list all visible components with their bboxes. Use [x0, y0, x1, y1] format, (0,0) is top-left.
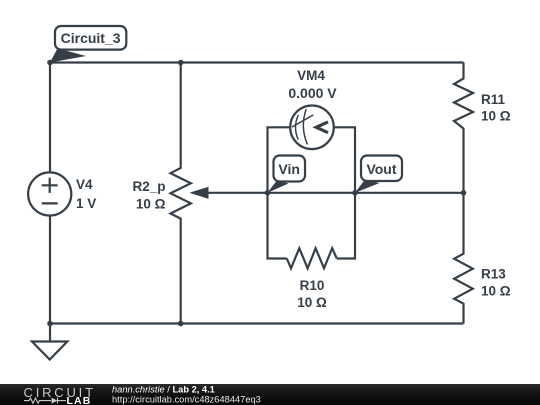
svg-text:10 Ω: 10 Ω [481, 284, 511, 299]
flag Circuit_3 [50, 26, 126, 63]
svg-text:10 Ω: 10 Ω [481, 109, 511, 124]
svg-text:Circuit_3: Circuit_3 [61, 30, 121, 46]
wire R10 loop right [337, 193, 355, 259]
resistor R10 [287, 248, 337, 268]
node (50,323.5) [47, 321, 53, 327]
wire left rail lower [49, 216, 51, 324]
node Vin [265, 190, 271, 196]
resistor R13 [454, 193, 473, 324]
wire middle (wiper to right rail) [194, 192, 464, 194]
voltmeter VM4 [290, 106, 334, 150]
node Vout [352, 190, 358, 196]
svg-text:hann.christie / Lab 2, 4.1: hann.christie / Lab 2, 4.1 [112, 385, 215, 395]
potentiometer R2_p [171, 63, 209, 324]
svg-text:R10: R10 [300, 278, 325, 293]
wire top rail [50, 61, 464, 63]
svg-text:http://circuitlab.com/c48z6484: http://circuitlab.com/c48z648447eq3 [112, 394, 261, 404]
svg-text:Vout: Vout [366, 161, 396, 177]
svg-text:10 Ω: 10 Ω [297, 295, 327, 310]
flag Vout [355, 156, 402, 193]
node (463.5,192.8) [461, 190, 467, 196]
voltage source V4 [28, 172, 71, 215]
svg-text:VM4: VM4 [297, 68, 325, 83]
svg-text:1 V: 1 V [76, 196, 96, 211]
wire bottom rail [50, 322, 464, 324]
svg-text:R13: R13 [481, 267, 506, 282]
node (50,62.5) [47, 60, 53, 66]
svg-text:LAB: LAB [67, 395, 92, 405]
resistor R11 [454, 63, 473, 193]
wire voltmeter left lead to Vin node [268, 127, 291, 193]
flag Vin [268, 156, 306, 193]
svg-text:V4: V4 [76, 177, 93, 192]
node (180.7,62.5) [178, 60, 184, 66]
svg-text:R2_p: R2_p [132, 179, 165, 194]
ground [32, 324, 67, 360]
footer bar [0, 384, 540, 405]
footer logo squiggle [24, 398, 66, 404]
svg-text:Vin: Vin [278, 161, 300, 177]
wire R10 loop left [268, 193, 287, 259]
wire left rail upper [49, 63, 51, 173]
wire voltmeter right lead to Vout node [334, 127, 356, 193]
svg-text:R11: R11 [481, 92, 506, 107]
node (180.7,323.5) [178, 321, 184, 327]
svg-text:10 Ω: 10 Ω [136, 196, 166, 211]
svg-text:0.000 V: 0.000 V [288, 85, 337, 101]
